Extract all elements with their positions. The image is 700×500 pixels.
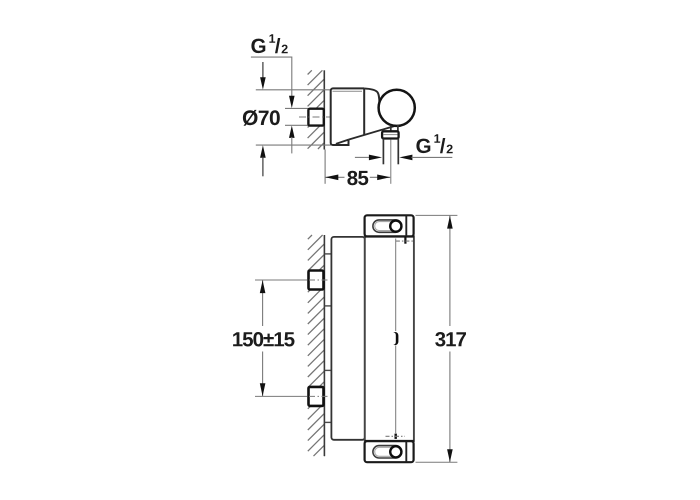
supply nipple (square fitting behind wall) <box>308 109 323 126</box>
extension line escutcheon bottom (O70) <box>256 144 331 146</box>
extension line escutcheon top (O70) <box>256 89 331 91</box>
union escutcheon ticks (bottom pair) <box>325 370 332 422</box>
dimension arrow G1/2 nipple top <box>289 96 295 108</box>
thermostat body <box>365 237 414 442</box>
extension line 317 top <box>416 214 458 216</box>
wall (hatched section, top drawing) <box>308 70 325 149</box>
dimension arrow O70 bottom <box>260 145 266 176</box>
leader G1/2 top <box>251 57 292 97</box>
fitting centerline top (150 extension) <box>255 279 307 281</box>
holder ball knob <box>379 90 415 126</box>
wall (hatched section, bottom drawing) <box>308 235 325 456</box>
extension line nipple top <box>285 107 308 109</box>
dimension arrow O70 top <box>260 62 266 90</box>
union escutcheon ticks (top pair) <box>325 254 332 306</box>
label G1/2 (right) <box>416 134 452 153</box>
escutcheon (wall flange of elbow) <box>331 88 365 145</box>
centre knob blob <box>393 332 398 345</box>
label 317 <box>435 332 466 347</box>
hose connector pipe <box>383 139 398 165</box>
body cone top outline <box>364 88 379 103</box>
bottom handle stop stub <box>386 434 406 439</box>
dimension G1/2 (hose) right arrow <box>399 155 452 161</box>
label 150+-15 <box>233 332 294 347</box>
outlet stub below knob <box>391 125 398 132</box>
body centerline <box>395 239 397 434</box>
bottom handle <box>365 441 414 462</box>
dimension 85 line + arrows <box>325 175 390 181</box>
top handle stop stub <box>396 237 414 244</box>
dimension 317 line + arrows <box>447 216 453 463</box>
extension line wall face (for 85 dim) <box>324 150 326 184</box>
dimension arrow G1/2 nipple bottom <box>289 126 295 154</box>
label G1/2 (top) <box>251 34 287 53</box>
fitting centerline bottom (150 extension) <box>255 395 307 397</box>
label 85 <box>347 171 368 186</box>
dimension G1/2 (hose) left arrow <box>355 155 382 161</box>
top handle <box>365 215 414 236</box>
pipe centerline (85 extension) <box>390 140 392 184</box>
body bottom slant outline <box>336 126 394 144</box>
dimension 150+-15 line + arrows <box>260 280 266 396</box>
extension line nipple bottom <box>285 124 308 126</box>
label O70 <box>243 110 280 126</box>
mounting back plate <box>331 237 364 440</box>
supply fitting top (square) <box>309 271 328 290</box>
supply fitting bottom (square) <box>309 387 328 406</box>
extension line 317 bottom <box>416 461 458 463</box>
nipple centerline <box>299 116 330 118</box>
hose nut <box>382 131 399 138</box>
